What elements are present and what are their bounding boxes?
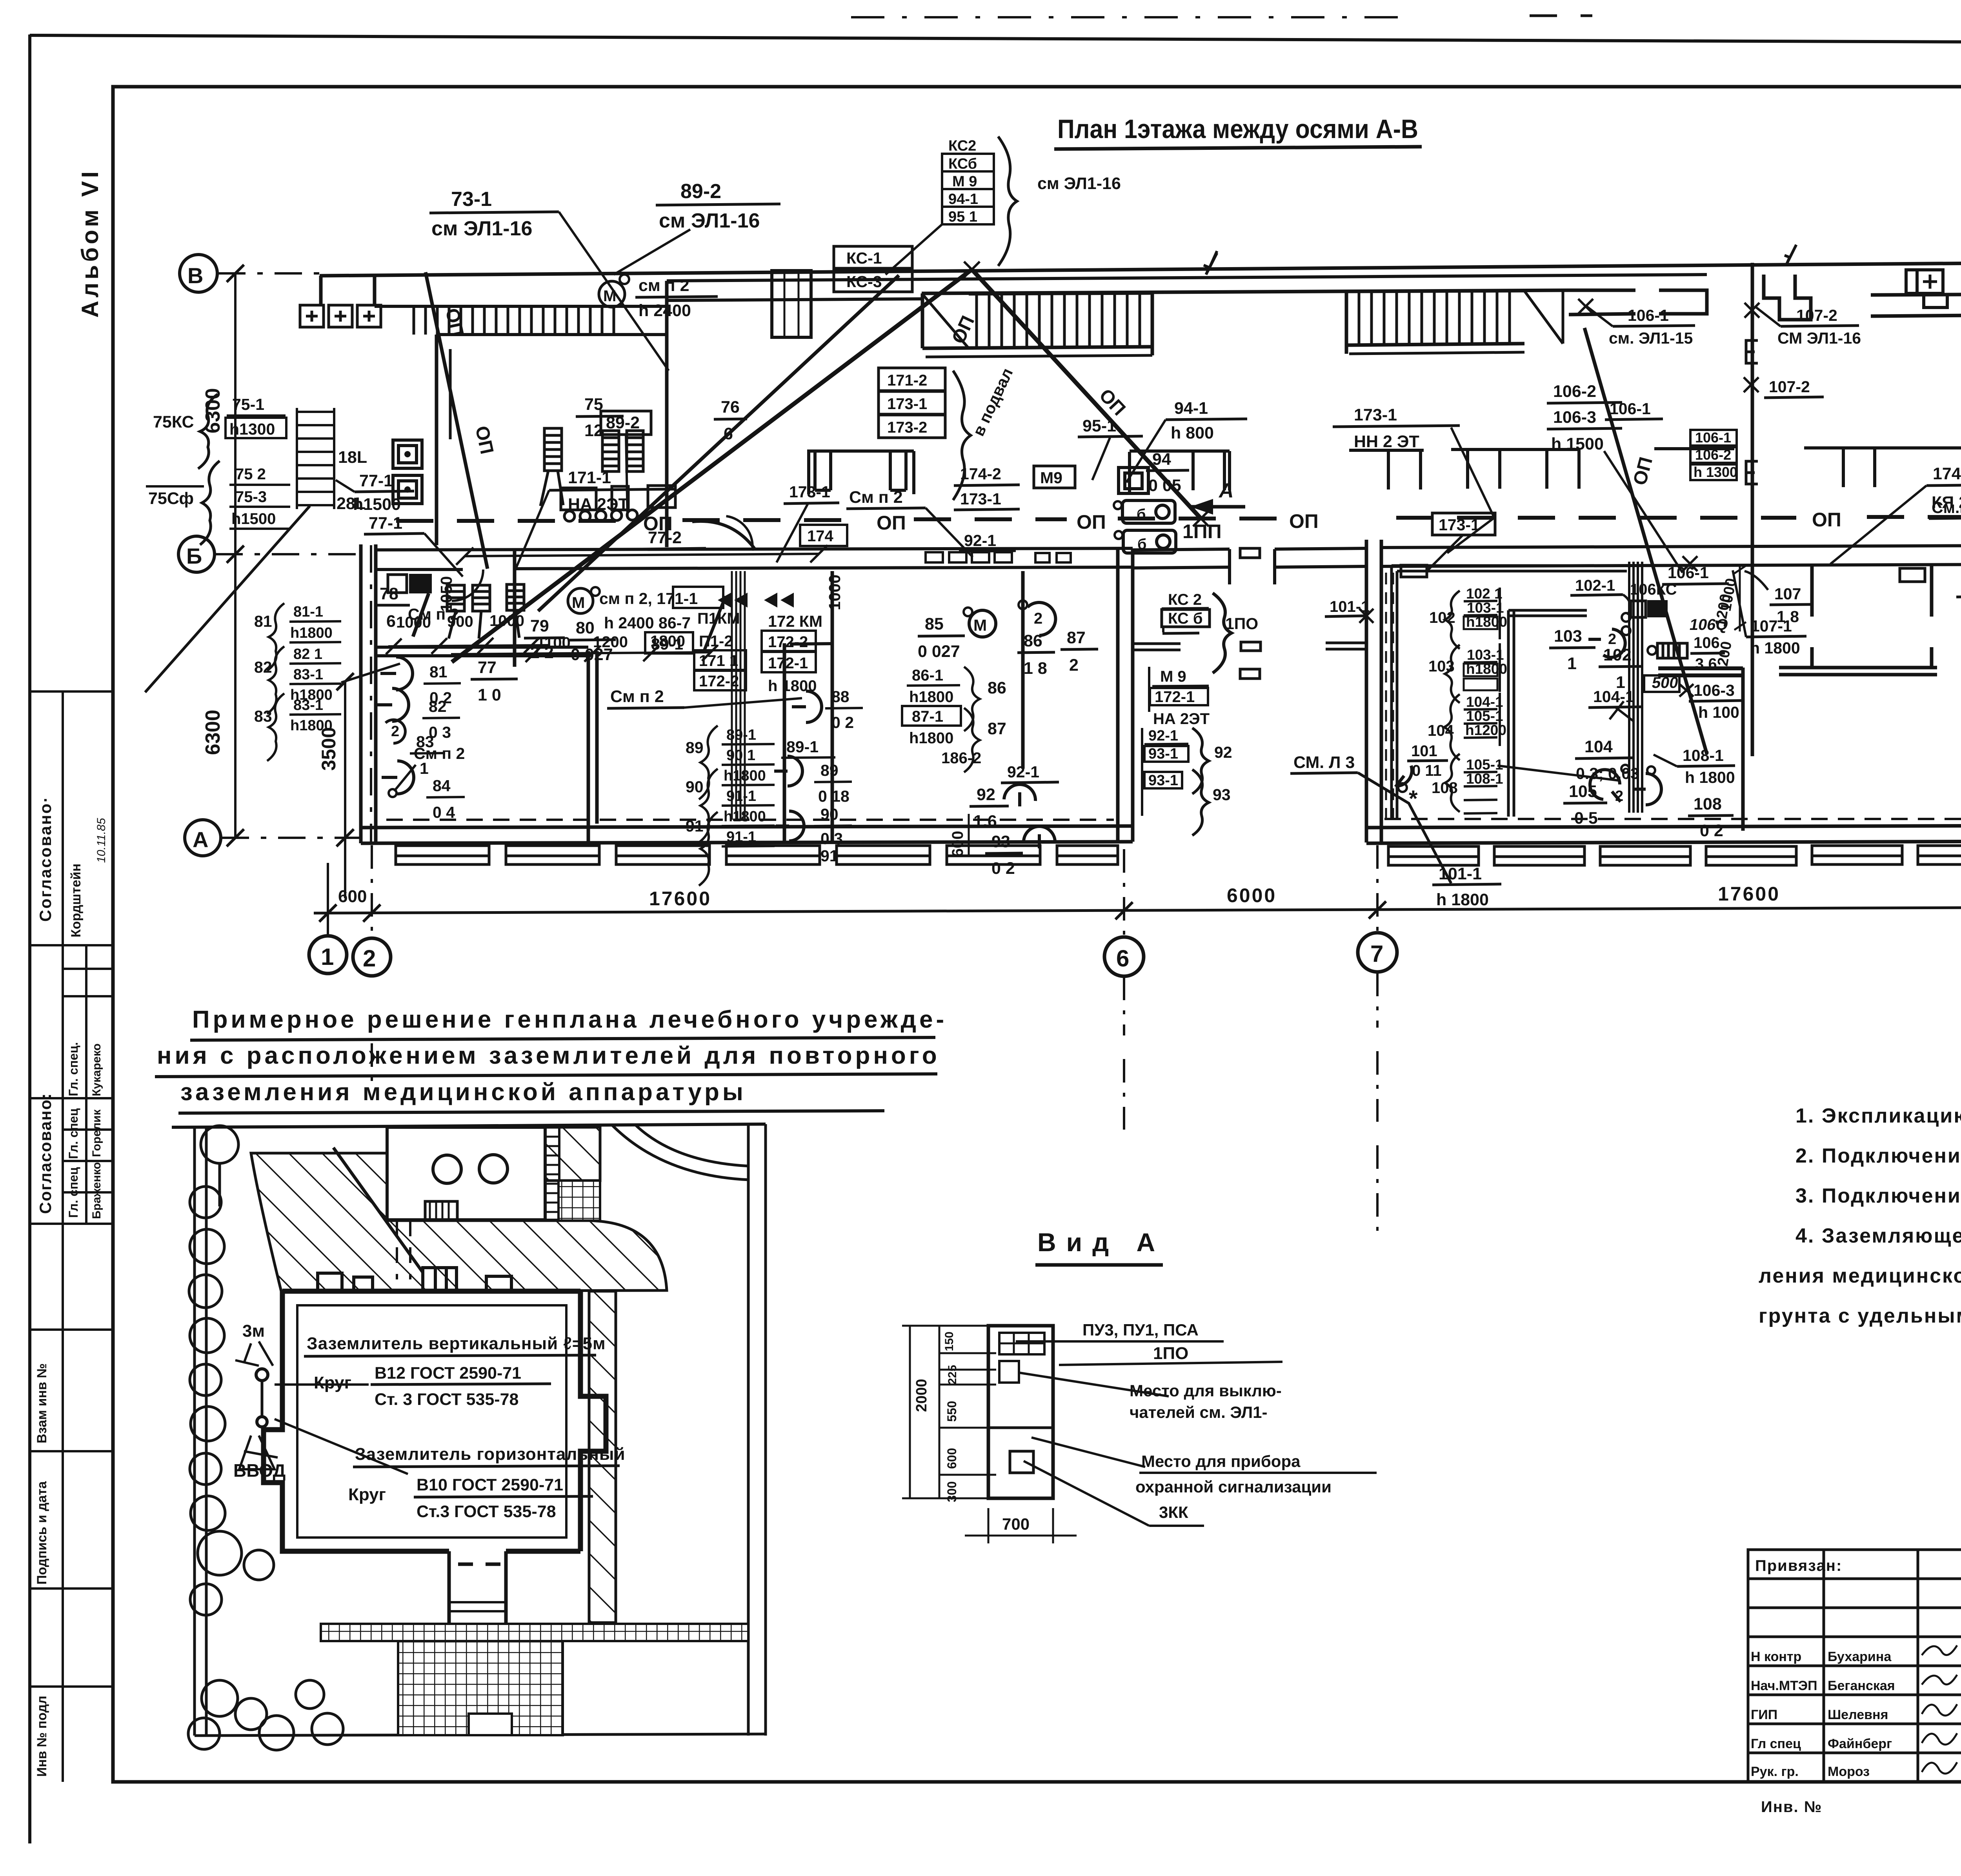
vertical dimension 3500 xyxy=(344,682,346,898)
svg-text:10.11.85: 10.11.85 xyxy=(95,818,108,863)
basins right block xyxy=(1590,770,1621,802)
building outline thick xyxy=(264,1291,606,1551)
svg-text:2: 2 xyxy=(1069,656,1079,675)
svg-text:77: 77 xyxy=(478,658,497,677)
building inner line xyxy=(297,1305,566,1538)
svg-text:П1-2: П1-2 xyxy=(699,633,733,650)
svg-text:75: 75 xyxy=(584,395,603,414)
svg-text:2: 2 xyxy=(391,723,399,740)
trees column xyxy=(189,1126,238,1530)
svg-text:В: В xyxy=(187,263,203,288)
svg-text:171-2: 171-2 xyxy=(887,372,927,389)
plus box right xyxy=(1917,270,1943,293)
svg-text:Привязан:: Привязан: xyxy=(1755,1557,1842,1574)
svg-text:заземления медицинской апп: заземления медицинской аппаратуры xyxy=(180,1079,746,1106)
700 below xyxy=(988,1508,990,1543)
svg-text:Вид А: Вид А xyxy=(1037,1228,1165,1257)
svg-text:Согласовано·: Согласовано· xyxy=(36,796,55,922)
svg-text:108-1: 108-1 xyxy=(1683,746,1724,764)
washbasins left rooms xyxy=(377,605,465,821)
entrance white rect with circles xyxy=(387,1127,545,1220)
svg-text:106-3: 106-3 xyxy=(1694,681,1735,699)
svg-text:92: 92 xyxy=(977,785,995,804)
right block outer walls xyxy=(1365,540,1368,842)
plus boxes on canopy left xyxy=(300,305,381,327)
svg-text:173-1: 173-1 xyxy=(1354,406,1397,424)
svg-text:ВВОД: ВВОД xyxy=(233,1460,286,1481)
svg-text:Нач.МТЭП: Нач.МТЭП xyxy=(1751,1678,1817,1693)
svg-text:86-1: 86-1 xyxy=(912,667,943,684)
top sheet dash-dot remnants xyxy=(851,16,1400,18)
axis circle A xyxy=(185,820,221,856)
svg-text:Инв № подл: Инв № подл xyxy=(35,1696,49,1777)
svg-text:h1300: h1300 xyxy=(229,420,275,438)
svg-text:М9: М9 xyxy=(1040,469,1062,487)
svg-text:88: 88 xyxy=(831,688,850,706)
hatched areas xyxy=(251,1153,667,1291)
switch boxes 18L 28L xyxy=(393,440,422,504)
svg-text:91-1: 91-1 xyxy=(726,788,756,804)
svg-text:103-1: 103-1 xyxy=(1467,647,1504,663)
svg-text:h1800: h1800 xyxy=(909,688,953,706)
signatures squiggles xyxy=(1922,1645,1957,1655)
89/018 90/03 91/02 right xyxy=(774,756,802,786)
svg-text:см ЭЛ1-16: см ЭЛ1-16 xyxy=(431,217,532,240)
svg-text:90: 90 xyxy=(686,778,704,796)
right kerb double xyxy=(747,1124,750,1736)
svg-text:КС2: КС2 xyxy=(948,138,976,154)
svg-text:h1800: h1800 xyxy=(909,730,953,747)
svg-text:300: 300 xyxy=(945,1481,959,1502)
svg-text:92-1: 92-1 xyxy=(1148,728,1178,744)
svg-text:75Сф: 75Сф xyxy=(148,489,194,508)
svg-text:150: 150 xyxy=(943,1332,956,1351)
svg-text:КС-3: КС-3 xyxy=(846,273,882,291)
left stair xyxy=(145,408,334,692)
svg-text:93-1: 93-1 xyxy=(1148,746,1178,762)
svg-text:172-2: 172-2 xyxy=(699,673,739,690)
svg-text:82 1: 82 1 xyxy=(293,646,322,662)
svg-text:106-1: 106-1 xyxy=(1628,306,1669,324)
svg-text:91-1: 91-1 xyxy=(726,829,756,845)
wall pieces right of ladder2 xyxy=(1569,290,1707,315)
svg-text:82: 82 xyxy=(429,697,447,715)
svg-text:0 2: 0 2 xyxy=(991,859,1015,878)
svg-text:3КК: 3КК xyxy=(1159,1503,1188,1521)
top boundary line xyxy=(172,1126,371,1127)
svg-text:0 05: 0 05 xyxy=(1148,476,1181,495)
building top teeth xyxy=(318,1148,511,1291)
svg-text:М: М xyxy=(572,594,585,611)
171-2/173-1/173-2 stack xyxy=(879,368,945,438)
svg-text:174: 174 xyxy=(807,528,833,545)
svg-text:76: 76 xyxy=(721,398,740,417)
svg-text:0 5: 0 5 xyxy=(1574,809,1598,828)
svg-text:2: 2 xyxy=(1608,631,1616,648)
svg-text:Примерное решение генплана: Примерное решение генплана лечебного учр… xyxy=(192,1006,947,1033)
dimension stack left of cabinet xyxy=(902,1326,996,1498)
svg-text:172-2: 172-2 xyxy=(768,633,808,651)
cabinet xyxy=(988,1326,1053,1498)
svg-text:1ПО: 1ПО xyxy=(1225,615,1258,633)
right block partitions xyxy=(1812,564,1932,617)
svg-text:ОП: ОП xyxy=(877,512,906,534)
svg-text:h 800: h 800 xyxy=(1171,424,1214,442)
vertical dimension 6300/6300 xyxy=(234,273,236,838)
svg-text:Рук. гр.: Рук. гр. xyxy=(1751,1764,1799,1779)
E clips on 107-2 line xyxy=(1746,340,1758,363)
svg-text:83-1: 83-1 xyxy=(293,697,323,713)
svg-text:173-1: 173-1 xyxy=(1439,516,1480,534)
svg-text:107-2: 107-2 xyxy=(1796,306,1837,324)
svg-text:173-1: 173-1 xyxy=(887,395,927,413)
wall band right section xyxy=(1871,293,1961,295)
svg-text:106-1: 106-1 xyxy=(1668,564,1709,582)
svg-text:охранной сигнализации: охранной сигнализации xyxy=(1135,1478,1332,1496)
svg-text:*: * xyxy=(1409,786,1418,812)
svg-text:0 3: 0 3 xyxy=(820,830,843,848)
svg-text:6: 6 xyxy=(724,424,733,443)
svg-text:Гл. спец.: Гл. спец. xyxy=(66,1042,80,1096)
dashed duct along left wall xyxy=(1386,573,1393,818)
ovens row lower xyxy=(413,584,524,639)
svg-text:0 4: 0 4 xyxy=(433,803,455,821)
svg-text:ОП: ОП xyxy=(1812,509,1841,531)
svg-text:91: 91 xyxy=(820,847,839,865)
svg-text:1 0: 1 0 xyxy=(478,686,501,704)
dashed underground line left xyxy=(386,819,1114,821)
svg-text:28L: 28L xyxy=(337,494,366,513)
svg-text:89-1: 89-1 xyxy=(651,635,683,653)
svg-text:3 6: 3 6 xyxy=(1695,655,1717,673)
axis vertical dash-dots xyxy=(328,540,1961,1232)
svg-text:18L: 18L xyxy=(338,448,367,467)
svg-text:Заземлитель горизонтальный: Заземлитель горизонтальный xyxy=(355,1445,626,1464)
axis circle Б xyxy=(178,536,215,572)
svg-text:3м: 3м xyxy=(242,1321,265,1341)
svg-text:173-1: 173-1 xyxy=(789,483,830,501)
svg-text:Беганская: Беганская xyxy=(1828,1678,1895,1693)
svg-text:Кукареко: Кукареко xyxy=(90,1043,103,1096)
svg-text:ОП: ОП xyxy=(1289,510,1319,532)
svg-text:Альбом VI: Альбом VI xyxy=(77,168,103,318)
svg-text:Инв. №: Инв. № xyxy=(1761,1798,1822,1816)
svg-text:ГИП: ГИП xyxy=(1751,1707,1777,1722)
svg-text:h 1800: h 1800 xyxy=(1685,768,1735,786)
svg-text:План 1этажа между осями А-В: План 1этажа между осями А-В xyxy=(1057,114,1418,144)
svg-text:7: 7 xyxy=(1370,941,1383,967)
axis circle B xyxy=(180,255,217,292)
svg-text:92: 92 xyxy=(1214,743,1232,761)
small x marks on feeders xyxy=(964,262,1759,571)
svg-text:89-1: 89-1 xyxy=(726,727,756,743)
svg-text:172-1: 172-1 xyxy=(1155,688,1195,706)
svg-text:1. Экспликацию помещений: 1. Экспликацию помещений см. лист ЭЛ1- 1… xyxy=(1795,1104,1961,1127)
KC stack xyxy=(942,154,994,224)
svg-text:2: 2 xyxy=(1615,788,1623,804)
svg-text:h 1500: h 1500 xyxy=(1551,435,1604,453)
svg-text:174-2: 174-2 xyxy=(1933,464,1961,483)
svg-text:600: 600 xyxy=(338,887,367,906)
svg-text:чателей см. ЭЛ1-: чателей см. ЭЛ1- xyxy=(1130,1403,1268,1421)
big diagonal feeders xyxy=(452,269,972,662)
svg-text:М: М xyxy=(603,287,616,305)
svg-text:94-1: 94-1 xyxy=(1174,399,1208,418)
lower rooms: left block outer walls xyxy=(359,544,363,843)
svg-text:171 1: 171 1 xyxy=(699,652,738,670)
svg-text:75 2: 75 2 xyxy=(235,466,266,483)
wall band: middle top (y 714-768) xyxy=(667,275,1707,281)
svg-text:83-1: 83-1 xyxy=(293,666,323,683)
svg-text:ОП: ОП xyxy=(1077,511,1106,533)
svg-text:ния с расположением заземли: ния с расположением заземлителей для пов… xyxy=(157,1042,940,1069)
svg-text:108: 108 xyxy=(1694,795,1722,813)
106/36 + coil xyxy=(1657,643,1687,658)
svg-text:101: 101 xyxy=(1411,742,1437,760)
svg-text:84: 84 xyxy=(433,777,451,795)
dim 1050 / 1000 rotated xyxy=(465,554,819,556)
svg-text:1000: 1000 xyxy=(489,612,524,630)
upper-left block walls xyxy=(435,335,438,545)
svg-text:СМ. Л 3: СМ. Л 3 xyxy=(1293,753,1355,772)
svg-text:1: 1 xyxy=(1567,654,1577,673)
svg-text:102-1: 102-1 xyxy=(1575,577,1615,594)
inner room box right block xyxy=(1392,566,1627,818)
svg-text:173-1: 173-1 xyxy=(960,490,1001,508)
svg-text:95 1: 95 1 xyxy=(948,209,977,225)
svg-text:104: 104 xyxy=(1584,737,1613,756)
svg-text:12: 12 xyxy=(584,421,603,440)
svg-text:Мороз: Мороз xyxy=(1828,1764,1870,1779)
svg-text:h1800: h1800 xyxy=(290,625,333,641)
svg-text:77-2: 77-2 xyxy=(648,528,682,547)
svg-text:89: 89 xyxy=(686,739,704,757)
svg-text:4. Заземляющее устройство д: 4. Заземляющее устройство для повторного… xyxy=(1795,1225,1961,1247)
T partitions hanging xyxy=(815,447,1961,490)
svg-text:93-1: 93-1 xyxy=(1148,772,1178,789)
grid patch top right xyxy=(558,1181,600,1221)
svg-text:81: 81 xyxy=(429,663,448,681)
outer border left xyxy=(28,35,31,1843)
svg-text:h1800: h1800 xyxy=(724,768,766,784)
svg-text:2. Подключение вентилятора: 2. Подключение вентилятора см. листы ЭЛ1… xyxy=(1795,1145,1961,1167)
svg-text:106-2: 106-2 xyxy=(1553,382,1596,401)
svg-text:1000: 1000 xyxy=(826,575,844,610)
svg-text:6: 6 xyxy=(1116,945,1129,972)
svg-text:1: 1 xyxy=(321,944,334,970)
svg-text:105-1: 105-1 xyxy=(1466,708,1503,724)
svg-text:П1КМ: П1КМ xyxy=(697,610,740,627)
porch slabs below axis A wall xyxy=(396,846,1118,864)
svg-text:НА 2ЭТ: НА 2ЭТ xyxy=(1153,710,1210,728)
svg-text:86: 86 xyxy=(1024,631,1042,650)
right porch slabs xyxy=(1388,846,1961,865)
svg-text:77-1: 77-1 xyxy=(359,471,393,490)
building bottom stub xyxy=(449,1551,506,1624)
svg-text:Взам инв №: Взам инв № xyxy=(35,1363,49,1443)
svg-text:75-3: 75-3 xyxy=(235,488,267,506)
svg-text:80: 80 xyxy=(576,619,595,637)
svg-text:Браженко: Браженко xyxy=(90,1162,103,1219)
bottom axis circles xyxy=(309,936,347,973)
canopy line xyxy=(320,262,1961,276)
svg-text:Круг: Круг xyxy=(348,1485,386,1504)
svg-text:106: 106 xyxy=(1694,634,1720,651)
device boxes xyxy=(1119,468,1176,553)
svg-text:6300: 6300 xyxy=(202,710,224,755)
svg-text:h1500: h1500 xyxy=(231,510,276,528)
svg-text:89: 89 xyxy=(820,761,839,779)
svg-text:83: 83 xyxy=(254,707,272,725)
svg-text:79: 79 xyxy=(530,617,549,635)
door arc left room xyxy=(452,570,483,601)
bottom walkway band xyxy=(321,1624,748,1641)
svg-text:87: 87 xyxy=(988,719,1006,738)
wall band: left block top (axis B) xyxy=(375,305,667,308)
svg-text:Заземлитель вертикальный ℓ=5м: Заземлитель вертикальный ℓ=5м xyxy=(307,1334,606,1353)
svg-text:Круг: Круг xyxy=(314,1373,351,1392)
svg-text:См п 2: См п 2 xyxy=(408,605,459,623)
svg-text:89-2: 89-2 xyxy=(680,180,721,203)
svg-text:225: 225 xyxy=(946,1365,959,1385)
corridor OP dashed wire xyxy=(396,519,628,523)
svg-text:93: 93 xyxy=(1213,786,1231,804)
svg-text:h 1800: h 1800 xyxy=(1436,890,1489,909)
svg-text:Гл спец: Гл спец xyxy=(1751,1736,1801,1751)
svg-text:172 КМ: 172 КМ xyxy=(768,612,822,630)
svg-text:103-1: 103-1 xyxy=(1467,600,1504,616)
svg-text:75КС: 75КС xyxy=(153,413,194,431)
106-1/106-2/h1300 stack xyxy=(1690,430,1737,480)
corridor door arc xyxy=(692,521,755,549)
svg-text:СМ ЭЛ1-16: СМ ЭЛ1-16 xyxy=(1777,329,1861,347)
svg-text:92-1: 92-1 xyxy=(1007,763,1039,781)
middle section walls xyxy=(1133,549,1230,550)
equipment row upper-left block xyxy=(540,428,675,521)
svg-text:см. ЭЛ1-15: см. ЭЛ1-15 xyxy=(1609,329,1693,347)
svg-text:17600: 17600 xyxy=(649,888,711,910)
svg-text:0 18: 0 18 xyxy=(818,787,850,805)
svg-text:М 9: М 9 xyxy=(1160,668,1186,685)
svg-text:h1800: h1800 xyxy=(724,808,766,825)
svg-text:см п 2: см п 2 xyxy=(639,276,689,295)
svg-text:см п 2, 171-1: см п 2, 171-1 xyxy=(599,590,698,608)
svg-text:Кордштейн: Кордштейн xyxy=(69,864,84,937)
svg-text:б: б xyxy=(1137,536,1146,553)
svg-text:ПУ3, ПУ1, ПСА: ПУ3, ПУ1, ПСА xyxy=(1082,1321,1199,1339)
svg-text:См п 2: См п 2 xyxy=(414,744,465,762)
porch ladder 2 xyxy=(1346,290,1563,354)
svg-text:173-2: 173-2 xyxy=(887,419,927,436)
svg-text:2000: 2000 xyxy=(913,1379,930,1412)
left block corridor-side wall with slots xyxy=(376,548,1133,550)
svg-text:КС-1: КС-1 xyxy=(846,249,882,267)
canopy left jog xyxy=(321,275,375,306)
svg-text:78: 78 xyxy=(380,584,398,603)
svg-text:75-1: 75-1 xyxy=(232,395,264,413)
svg-text:93: 93 xyxy=(991,832,1010,851)
svg-text:Н контр: Н контр xyxy=(1751,1649,1801,1664)
hatch ticks in left band xyxy=(414,306,614,335)
duct shaft at 1970 xyxy=(772,271,811,337)
svg-text:106-1: 106-1 xyxy=(1610,400,1651,418)
svg-text:h 1800: h 1800 xyxy=(1750,639,1800,657)
svg-text:17600: 17600 xyxy=(1718,883,1780,905)
svg-text:95-1: 95-1 xyxy=(1082,417,1116,435)
svg-text:1ПО: 1ПО xyxy=(1153,1344,1188,1363)
svg-text:ления медицинской аппарату: ления медицинской аппаратуры приведено д… xyxy=(1759,1265,1961,1287)
ladder strip right of entrance xyxy=(545,1127,559,1220)
svg-text:См п 2: См п 2 xyxy=(610,687,664,706)
svg-text:грунта с удельным сопрот: грунта с удельным сопротивлением 100 Ом·… xyxy=(1759,1305,1961,1327)
svg-text:КС 2: КС 2 xyxy=(1168,591,1202,608)
svg-text:В10 ГОСТ 2590-71: В10 ГОСТ 2590-71 xyxy=(417,1476,563,1494)
bottom dimension line xyxy=(314,907,1961,913)
svg-text:106-1: 106-1 xyxy=(1695,429,1731,446)
svg-text:700: 700 xyxy=(1002,1515,1030,1533)
svg-text:2: 2 xyxy=(363,945,376,972)
svg-text:Файнберг: Файнберг xyxy=(1828,1736,1892,1751)
leader lines and labels xyxy=(1016,1340,1224,1343)
left signatures table xyxy=(1748,1550,1961,1781)
svg-text:Место для выклю-: Место для выклю- xyxy=(1130,1381,1282,1400)
svg-text:86: 86 xyxy=(988,679,1006,697)
svg-text:0 027: 0 027 xyxy=(571,645,613,664)
black panel + 78/6 xyxy=(409,574,432,593)
top-right curved roads xyxy=(612,1125,749,1180)
svg-text:А: А xyxy=(1218,479,1234,502)
trees cluster bottom xyxy=(188,1531,343,1750)
outer border top xyxy=(30,35,1961,44)
svg-text:186-2: 186-2 xyxy=(941,750,981,767)
riser bundle П1КМ xyxy=(732,571,745,820)
window slots in corridor wall xyxy=(926,552,1071,562)
svg-text:106-3: 106-3 xyxy=(1553,408,1596,427)
svg-text:Место для прибора: Место для прибора xyxy=(1141,1452,1301,1470)
svg-text:В12 ГОСТ 2590-71: В12 ГОСТ 2590-71 xyxy=(375,1364,521,1383)
porch ladder 1 (hatched stair) xyxy=(922,293,1152,357)
svg-text:104-1: 104-1 xyxy=(1466,694,1503,710)
svg-text:Шелевня: Шелевня xyxy=(1828,1707,1888,1722)
svg-text:h 2400 86-7: h 2400 86-7 xyxy=(604,614,691,632)
svg-text:h1800: h1800 xyxy=(290,717,333,734)
dashed entry path xyxy=(397,1221,410,1279)
2) arc xyxy=(1028,602,1055,635)
svg-text:Гл. спец: Гл. спец xyxy=(66,1167,80,1218)
svg-text:М 9: М 9 xyxy=(952,173,977,190)
svg-text:6000: 6000 xyxy=(1227,884,1277,906)
svg-text:101-1: 101-1 xyxy=(1439,864,1482,883)
svg-text:КСб: КСб xyxy=(948,156,977,172)
svg-text:Б: Б xyxy=(186,544,202,568)
svg-text:1 8: 1 8 xyxy=(1024,659,1047,678)
canopy flags xyxy=(1204,243,1961,275)
labels: 81 82 83 stack xyxy=(254,603,400,761)
svg-text:107-2: 107-2 xyxy=(1769,378,1810,396)
svg-text:90 1: 90 1 xyxy=(726,747,755,764)
svg-text:См.п.2: См.п.2 xyxy=(1932,499,1961,517)
KC-1 KC-3 xyxy=(834,246,912,268)
svg-text:106Q: 106Q xyxy=(1688,616,1730,633)
svg-text:82: 82 xyxy=(254,658,272,676)
svg-text:М: М xyxy=(973,616,987,634)
svg-text:См п 2: См п 2 xyxy=(849,488,903,507)
88/02 xyxy=(792,691,822,722)
svg-text:Бухарина: Бухарина xyxy=(1828,1649,1892,1664)
svg-text:КС б: КС б xyxy=(1168,610,1203,627)
svg-text:Ст.3 ГОСТ 535-78: Ст.3 ГОСТ 535-78 xyxy=(417,1502,556,1521)
svg-text:Согласовано:: Согласовано: xyxy=(36,1093,55,1214)
